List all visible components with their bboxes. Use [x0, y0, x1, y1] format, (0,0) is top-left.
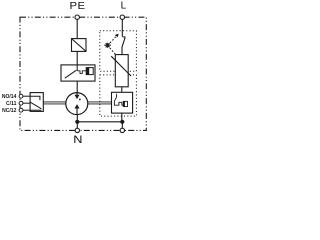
switch lever (triggered switch): [122, 37, 125, 47]
remote signalling changeover contact box: [30, 93, 43, 112]
wire C/11 terminal to contact box: [23, 102, 30, 104]
svg-text:PE: PE: [69, 0, 85, 11]
wire monitoring box to right junction: [121, 113, 123, 122]
junction dot left (N node): [75, 120, 79, 124]
wire disconnector to indicator box: [76, 51, 78, 65]
switch fixed contact tick: [122, 36, 125, 38]
disconnection indicator box (PE path): [61, 65, 95, 81]
monitoring / disconnection indicator box (L path): [112, 92, 133, 113]
trigger star (electronic trigger circuit): [104, 43, 111, 48]
terminal N' (right bottom): [120, 128, 124, 132]
label PE: [69, 0, 85, 11]
terminal L: [120, 15, 124, 19]
dashed trigger line to switch with arrowhead: [110, 37, 116, 43]
terminal NO/14: [19, 94, 23, 98]
label L: [121, 1, 127, 12]
svg-text:N: N: [73, 133, 82, 144]
varistor (box with diagonal): [111, 55, 131, 87]
label NC/12: [2, 108, 16, 114]
wire lever to varistor: [121, 47, 123, 55]
terminal NC/12: [19, 108, 23, 112]
svg-text:L: L: [121, 1, 127, 12]
wire junction to N terminal: [76, 122, 78, 131]
mechanical linkage (double line) spark gap to monitoring box: [88, 102, 112, 104]
junction dot right (N node): [120, 120, 124, 124]
spark gap N-PE (gas discharge tube): [66, 93, 88, 115]
thermal disconnector F1 (box with diagonal): [72, 39, 87, 52]
wire varistor to monitoring box: [121, 87, 123, 93]
label N: [73, 133, 82, 146]
wire indicator box to spark gap: [76, 81, 78, 93]
wire spark gap to N junction: [76, 115, 78, 122]
N rail wire: [77, 121, 122, 123]
enclosure boundary (dash-dot-dot border): [20, 17, 146, 130]
wire NC/12 terminal to contact box: [23, 109, 30, 111]
wire L terminal to switch: [121, 19, 123, 36]
svg-text:NC/12: NC/12: [2, 108, 16, 114]
dashed trigger line to varistor: [110, 48, 116, 54]
label NO/14: [2, 94, 16, 100]
svg-text:NO/14: NO/14: [2, 94, 16, 100]
svg-text:C/11: C/11: [6, 101, 16, 107]
label C/11: [6, 101, 16, 107]
terminal N: [75, 128, 79, 132]
wire right junction to bottom terminal: [121, 122, 123, 131]
dotted box: trigger unit: [100, 31, 137, 72]
dotted box: arrester stage: [100, 75, 137, 116]
wire NO/14 terminal to contact box: [23, 95, 30, 97]
wire PE terminal to thermal disconnector: [76, 19, 78, 38]
mechanical linkage (double line) relay to spark gap: [43, 102, 65, 104]
terminal PE: [75, 15, 79, 19]
terminal C/11: [19, 101, 23, 105]
